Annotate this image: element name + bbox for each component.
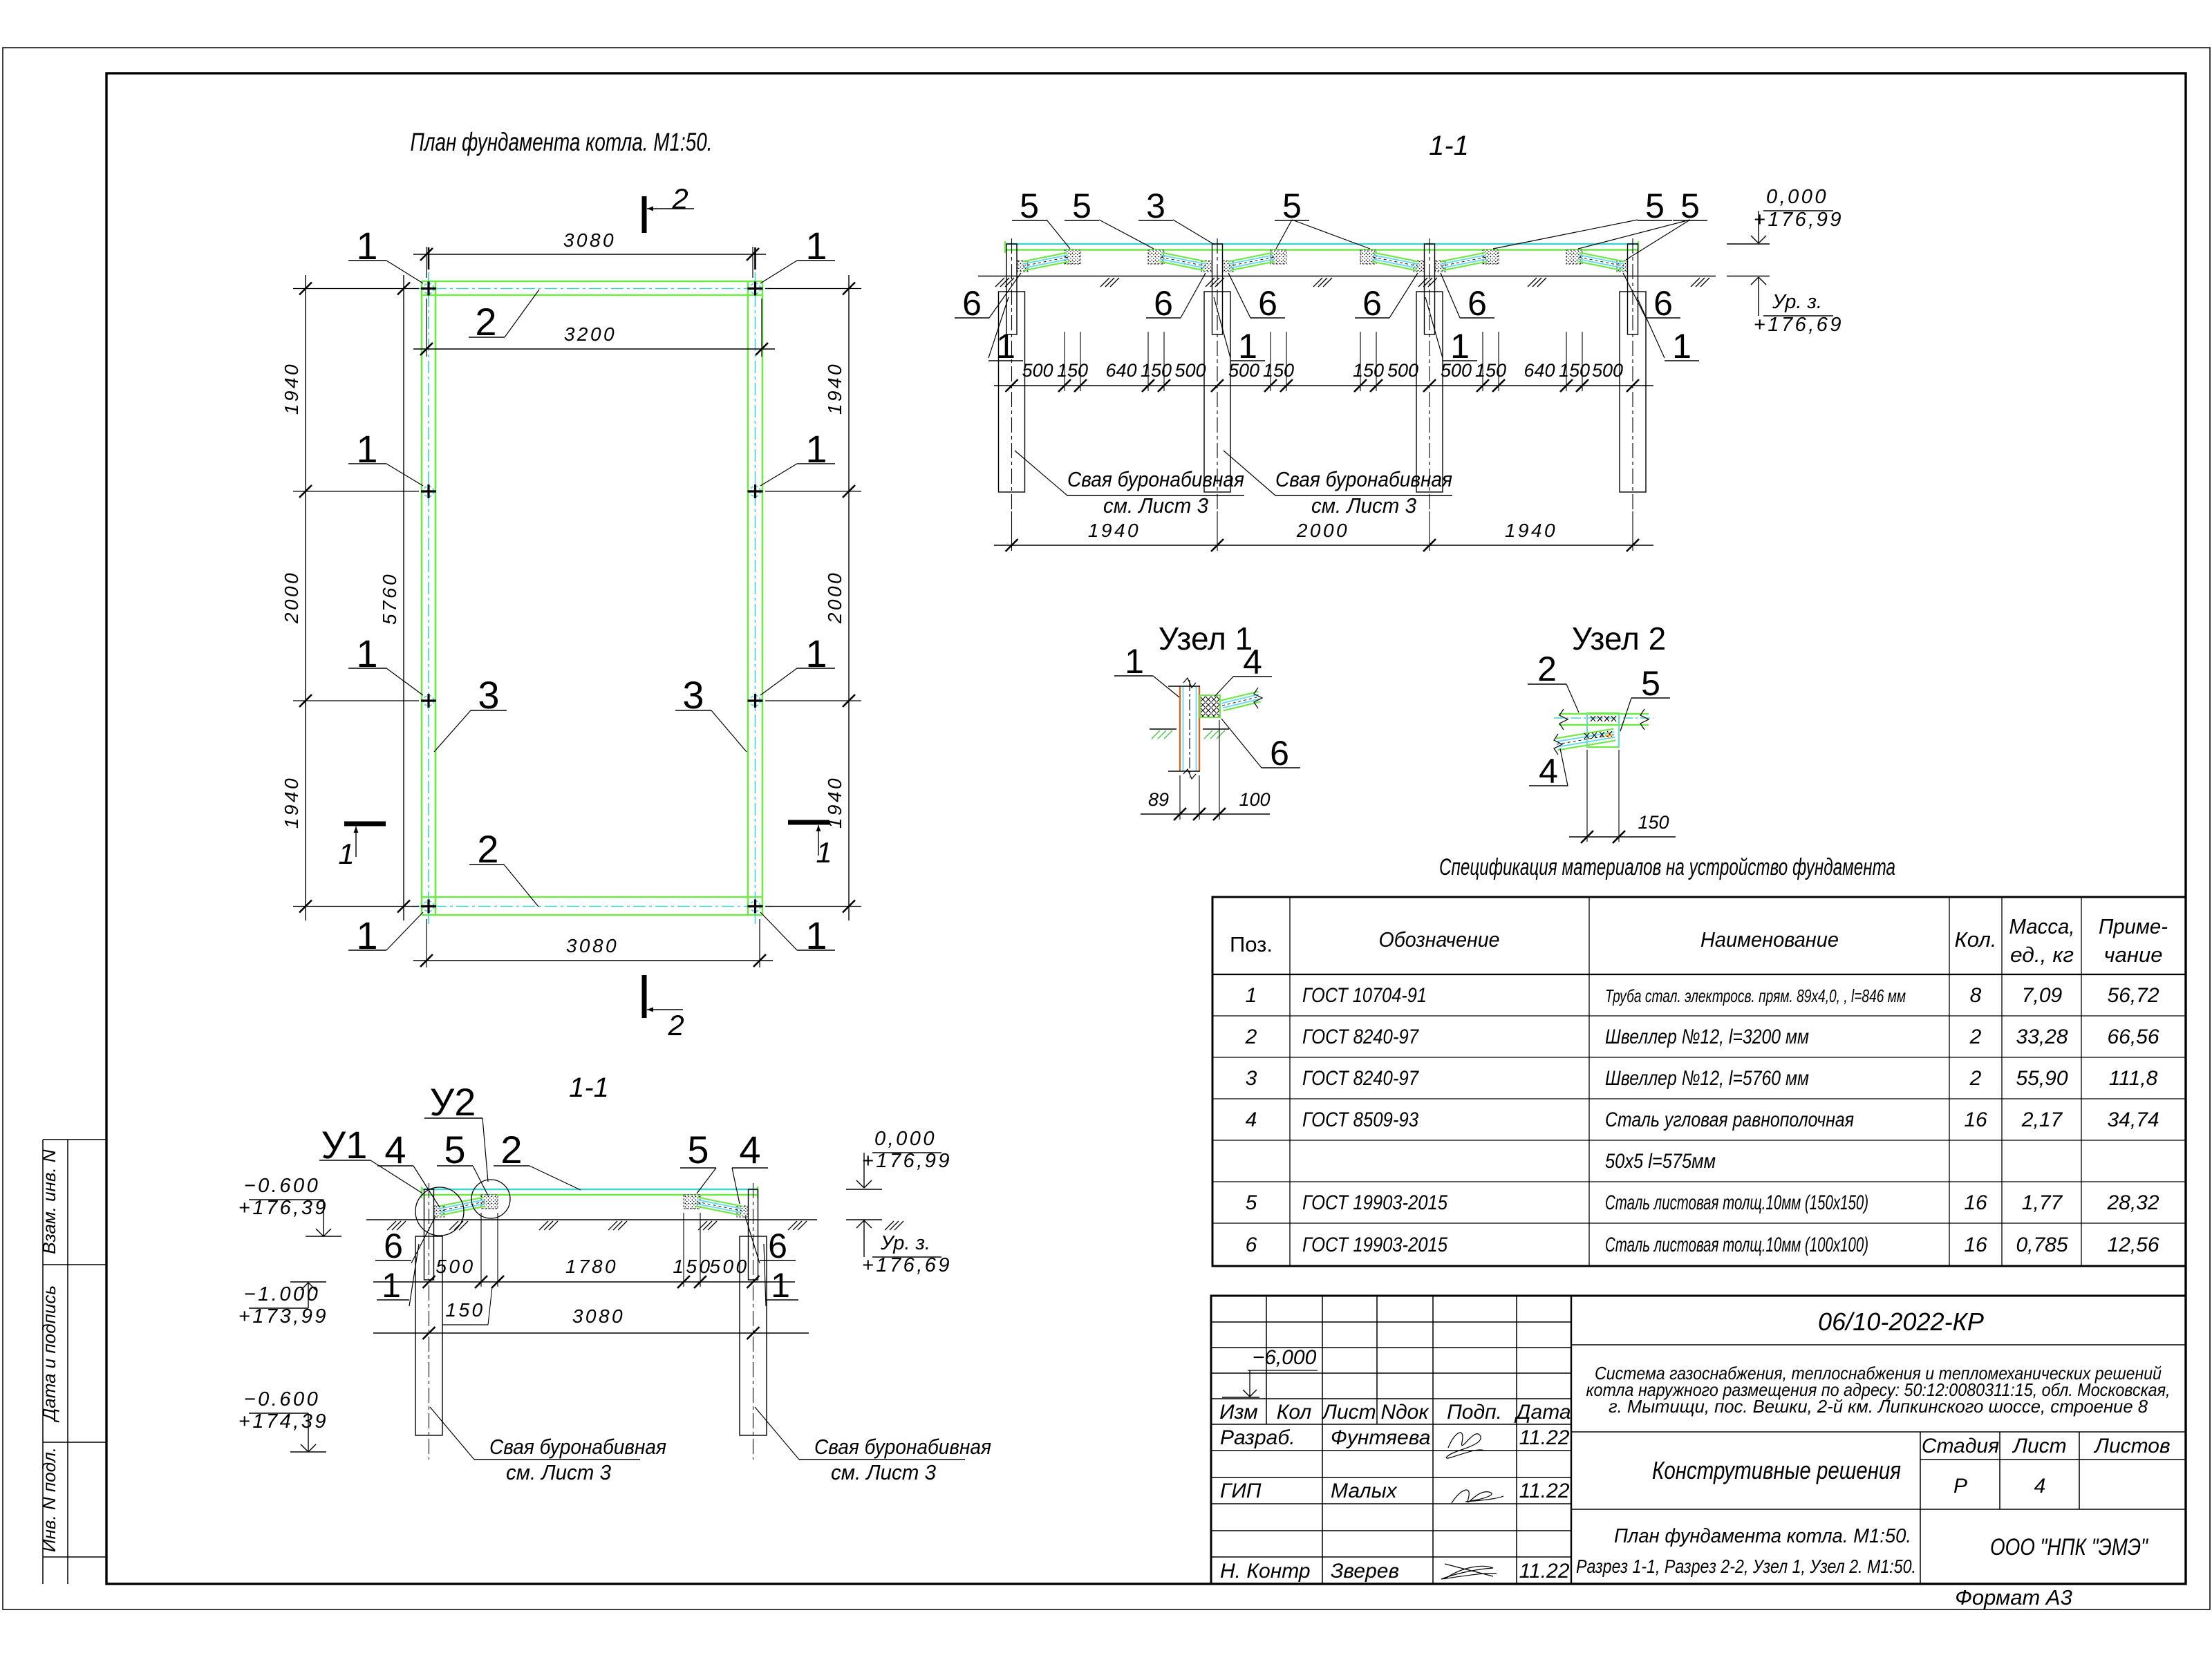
svg-text:2000: 2000 — [824, 571, 845, 624]
svg-text:4: 4 — [1246, 1108, 1257, 1131]
svg-text:150: 150 — [1353, 360, 1384, 381]
svg-text:Швеллер №12, l=3200 мм: Швеллер №12, l=3200 мм — [1605, 1026, 1809, 1048]
svg-text:Труба стал. электросв. прям. 8: Труба стал. электросв. прям. 89х4,0, , l… — [1605, 985, 1906, 1006]
svg-text:Конструтивные решения: Конструтивные решения — [1652, 1456, 1901, 1484]
svg-text:1: 1 — [1238, 327, 1257, 366]
svg-text:1: 1 — [1246, 984, 1257, 1007]
svg-text:чание: чание — [2104, 943, 2163, 967]
svg-text:150: 150 — [1475, 360, 1506, 381]
svg-text:150: 150 — [1559, 360, 1590, 381]
svg-text:150: 150 — [1263, 360, 1294, 381]
svg-text:см. Лист 3: см. Лист 3 — [831, 1460, 936, 1484]
svg-text:Швеллер №12, l=5760 мм: Швеллер №12, l=5760 мм — [1605, 1067, 1809, 1090]
svg-text:3: 3 — [1146, 187, 1165, 225]
svg-text:12,56: 12,56 — [2107, 1234, 2159, 1256]
svg-text:Инв. N подл.: Инв. N подл. — [39, 1447, 59, 1552]
svg-text:55,90: 55,90 — [2016, 1067, 2068, 1090]
svg-text:16: 16 — [1964, 1234, 1987, 1256]
svg-text:0,000: 0,000 — [874, 1128, 937, 1150]
svg-text:28,32: 28,32 — [2106, 1191, 2159, 1214]
svg-text:5: 5 — [1680, 187, 1700, 225]
svg-text:66,56: 66,56 — [2107, 1026, 2159, 1048]
svg-text:2000: 2000 — [281, 571, 302, 624]
svg-text:150: 150 — [1057, 360, 1088, 381]
svg-text:500: 500 — [1592, 360, 1623, 381]
svg-text:−0.600: −0.600 — [244, 1175, 321, 1197]
svg-text:8: 8 — [1970, 984, 1982, 1007]
svg-text:ООО "НПК "ЭМЭ": ООО "НПК "ЭМЭ" — [1990, 1534, 2149, 1560]
svg-text:Р: Р — [1953, 1475, 1967, 1498]
svg-text:Свая буронабивная: Свая буронабивная — [1275, 467, 1452, 491]
svg-text:Свая буронабивная: Свая буронабивная — [1067, 467, 1244, 491]
svg-text:1-1: 1-1 — [1429, 131, 1469, 161]
svg-text:Свая буронабивная: Свая буронабивная — [489, 1435, 666, 1459]
svg-text:Спецификация материалов на уст: Спецификация материалов на устройство фу… — [1439, 854, 1895, 880]
svg-text:4: 4 — [1539, 752, 1558, 791]
svg-text:−6,000: −6,000 — [1253, 1346, 1317, 1369]
svg-text:4: 4 — [384, 1128, 406, 1171]
svg-text:2000: 2000 — [1296, 520, 1349, 541]
svg-text:500: 500 — [709, 1256, 749, 1277]
svg-text:1940: 1940 — [281, 362, 302, 415]
svg-text:1: 1 — [1125, 642, 1144, 681]
svg-text:см. Лист 3: см. Лист 3 — [1103, 493, 1208, 518]
svg-text:Наименование: Наименование — [1700, 927, 1839, 952]
svg-text:6: 6 — [768, 1227, 787, 1265]
svg-text:0,785: 0,785 — [2016, 1234, 2068, 1256]
svg-text:ед., кг: ед., кг — [2010, 943, 2074, 967]
svg-text:4: 4 — [2034, 1475, 2046, 1498]
svg-text:2: 2 — [1537, 650, 1557, 688]
svg-text:1: 1 — [1672, 327, 1691, 366]
svg-text:5: 5 — [1072, 187, 1091, 225]
svg-text:6: 6 — [1154, 284, 1173, 323]
svg-text:+174,39: +174,39 — [238, 1410, 328, 1433]
svg-text:16: 16 — [1964, 1191, 1987, 1214]
svg-text:5: 5 — [1020, 187, 1039, 225]
svg-text:6: 6 — [962, 284, 982, 323]
svg-text:0,000: 0,000 — [1766, 186, 1828, 208]
svg-text:г. Мытищи, пос. Вешки, 2-й км.: г. Мытищи, пос. Вешки, 2-й км. Липкинско… — [1609, 1396, 2148, 1417]
svg-text:+176,69: +176,69 — [862, 1254, 952, 1276]
svg-text:1-1: 1-1 — [569, 1073, 609, 1103]
svg-text:ГОСТ 19903-2015: ГОСТ 19903-2015 — [1302, 1234, 1447, 1256]
svg-text:Ур. з.: Ур. з. — [1772, 291, 1822, 313]
svg-text:6: 6 — [1362, 284, 1382, 323]
svg-text:+176,99: +176,99 — [862, 1150, 952, 1172]
svg-text:Подп.: Подп. — [1447, 1401, 1502, 1424]
svg-text:Малых: Малых — [1331, 1480, 1398, 1502]
svg-text:11.22: 11.22 — [1519, 1426, 1570, 1449]
svg-text:Зверев: Зверев — [1331, 1560, 1399, 1583]
svg-text:1940: 1940 — [281, 776, 302, 829]
svg-text:ГИП: ГИП — [1220, 1480, 1262, 1502]
svg-text:1: 1 — [816, 836, 832, 869]
svg-text:150: 150 — [445, 1299, 485, 1321]
svg-text:6: 6 — [1653, 284, 1673, 323]
svg-text:Формат А3: Формат А3 — [1955, 1585, 2072, 1609]
svg-text:1780: 1780 — [565, 1256, 618, 1277]
svg-text:Лист: Лист — [1321, 1401, 1376, 1424]
svg-text:2,17: 2,17 — [2021, 1108, 2063, 1131]
svg-text:2: 2 — [671, 182, 688, 215]
svg-text:5760: 5760 — [379, 572, 400, 625]
svg-text:5: 5 — [1246, 1191, 1257, 1214]
svg-text:Кол.: Кол. — [1955, 927, 1997, 952]
svg-text:34,74: 34,74 — [2107, 1108, 2159, 1131]
svg-text:6: 6 — [1246, 1234, 1257, 1256]
svg-text:640: 640 — [1524, 360, 1555, 381]
svg-text:Масса,: Масса, — [2009, 914, 2075, 938]
svg-text:56,72: 56,72 — [2107, 984, 2159, 1007]
svg-text:5: 5 — [1282, 187, 1302, 225]
svg-text:500: 500 — [1022, 360, 1053, 381]
svg-text:1: 1 — [1450, 327, 1470, 366]
svg-text:Дата и подпись: Дата и подпись — [39, 1285, 59, 1423]
svg-text:6: 6 — [1258, 284, 1277, 323]
svg-text:ГОСТ 19903-2015: ГОСТ 19903-2015 — [1302, 1191, 1447, 1214]
svg-text:Взам. инв. N: Взам. инв. N — [39, 1149, 59, 1254]
svg-text:5: 5 — [1645, 187, 1665, 225]
svg-text:Свая буронабивная: Свая буронабивная — [814, 1435, 991, 1459]
svg-text:6: 6 — [1270, 734, 1289, 773]
svg-text:06/10-2022-КР: 06/10-2022-КР — [1818, 1307, 1984, 1336]
svg-text:7,09: 7,09 — [2022, 984, 2063, 1007]
svg-text:1940: 1940 — [1088, 520, 1141, 541]
svg-text:Дата: Дата — [1514, 1401, 1571, 1424]
svg-text:3080: 3080 — [563, 229, 616, 251]
svg-text:Узел 1: Узел 1 — [1159, 621, 1253, 657]
svg-text:150: 150 — [673, 1256, 712, 1277]
svg-text:50х5 l=575мм: 50х5 l=575мм — [1605, 1150, 1716, 1173]
svg-text:640: 640 — [1105, 360, 1136, 381]
svg-text:33,28: 33,28 — [2016, 1026, 2068, 1048]
svg-text:Сталь листовая толщ.10мм (100х: Сталь листовая толщ.10мм (100х100) — [1605, 1234, 1868, 1256]
svg-text:1940: 1940 — [824, 362, 845, 415]
svg-text:11.22: 11.22 — [1519, 1560, 1570, 1583]
svg-text:2: 2 — [1969, 1067, 1982, 1090]
svg-text:+176,99: +176,99 — [1754, 209, 1844, 231]
svg-text:ГОСТ 8509-93: ГОСТ 8509-93 — [1302, 1108, 1418, 1131]
svg-text:1940: 1940 — [1505, 520, 1557, 541]
svg-text:+173,99: +173,99 — [238, 1305, 328, 1328]
svg-text:1: 1 — [382, 1266, 401, 1305]
svg-text:3080: 3080 — [572, 1305, 625, 1327]
svg-text:Изм: Изм — [1219, 1401, 1258, 1424]
svg-text:2: 2 — [1245, 1026, 1257, 1048]
svg-text:−0.600: −0.600 — [244, 1388, 321, 1410]
svg-text:Кол: Кол — [1277, 1401, 1312, 1424]
svg-text:План фундамента котла. М1:50.: План фундамента котла. М1:50. — [1614, 1525, 1911, 1547]
svg-text:500: 500 — [1387, 360, 1418, 381]
svg-text:6: 6 — [1468, 284, 1487, 323]
svg-text:500: 500 — [1174, 360, 1206, 381]
svg-text:Листов: Листов — [2093, 1435, 2170, 1457]
svg-text:6: 6 — [384, 1227, 403, 1265]
svg-text:Приме-: Приме- — [2099, 914, 2168, 938]
svg-text:2: 2 — [500, 1128, 522, 1171]
svg-text:+176,39: +176,39 — [238, 1197, 328, 1219]
svg-text:150: 150 — [1638, 812, 1669, 833]
svg-text:Разрез 1-1, Разрез 2-2, Узел 1: Разрез 1-1, Разрез 2-2, Узел 1, Узел 2. … — [1576, 1556, 1916, 1577]
svg-text:Nдок: Nдок — [1380, 1401, 1430, 1424]
svg-text:150: 150 — [1141, 360, 1172, 381]
svg-text:4: 4 — [739, 1128, 760, 1171]
svg-text:Сталь угловая равнополочная: Сталь угловая равнополочная — [1605, 1108, 1854, 1131]
svg-text:ГОСТ 8240-97: ГОСТ 8240-97 — [1302, 1067, 1419, 1090]
svg-text:Лист: Лист — [2012, 1435, 2066, 1457]
svg-text:ГОСТ 10704-91: ГОСТ 10704-91 — [1302, 984, 1427, 1007]
svg-text:89: 89 — [1148, 789, 1169, 810]
svg-text:3080: 3080 — [566, 935, 619, 956]
svg-text:1: 1 — [996, 327, 1015, 366]
svg-text:111,8: 111,8 — [2109, 1067, 2158, 1090]
svg-text:5: 5 — [687, 1128, 709, 1171]
svg-text:У2: У2 — [430, 1080, 476, 1124]
svg-text:2: 2 — [1969, 1026, 1982, 1048]
svg-text:Разраб.: Разраб. — [1220, 1426, 1295, 1449]
svg-text:2: 2 — [667, 1009, 684, 1041]
svg-text:3200: 3200 — [564, 323, 617, 345]
svg-text:5: 5 — [444, 1128, 465, 1171]
svg-text:5: 5 — [1641, 664, 1660, 703]
svg-text:4: 4 — [1243, 643, 1262, 681]
svg-text:3: 3 — [1246, 1067, 1257, 1090]
svg-text:План фундамента котла. М1:50.: План фундамента котла. М1:50. — [411, 128, 713, 156]
svg-text:Стадия: Стадия — [1922, 1435, 1999, 1457]
svg-text:500: 500 — [435, 1256, 475, 1277]
svg-text:1: 1 — [338, 838, 354, 870]
svg-text:Ур. з.: Ур. з. — [880, 1232, 930, 1254]
svg-text:Фунтяева: Фунтяева — [1331, 1426, 1430, 1449]
svg-text:16: 16 — [1964, 1108, 1987, 1131]
svg-text:1: 1 — [771, 1266, 790, 1305]
svg-text:11.22: 11.22 — [1519, 1480, 1570, 1502]
svg-text:см. Лист 3: см. Лист 3 — [1311, 493, 1416, 518]
svg-text:Сталь листовая толщ.10мм (150х: Сталь листовая толщ.10мм (150х150) — [1605, 1191, 1868, 1214]
svg-text:см. Лист 3: см. Лист 3 — [506, 1460, 611, 1484]
svg-text:Обозначение: Обозначение — [1379, 927, 1500, 952]
svg-text:+176,69: +176,69 — [1754, 314, 1844, 336]
svg-text:1,77: 1,77 — [2022, 1191, 2063, 1214]
svg-text:Узел 2: Узел 2 — [1572, 621, 1666, 657]
svg-text:100: 100 — [1239, 789, 1270, 810]
svg-text:ГОСТ 8240-97: ГОСТ 8240-97 — [1302, 1026, 1419, 1048]
svg-text:Поз.: Поз. — [1230, 932, 1273, 956]
svg-text:Н. Контр: Н. Контр — [1220, 1560, 1311, 1583]
